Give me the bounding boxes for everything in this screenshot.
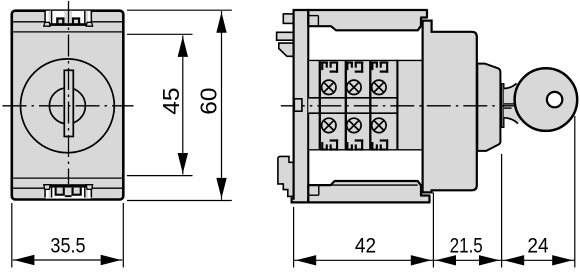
svg-text:35.5: 35.5 xyxy=(50,233,85,258)
svg-text:24: 24 xyxy=(527,233,548,258)
svg-text:21.5: 21.5 xyxy=(450,233,483,258)
svg-text:42: 42 xyxy=(355,233,376,258)
svg-text:45: 45 xyxy=(158,88,184,115)
svg-text:60: 60 xyxy=(195,88,221,115)
